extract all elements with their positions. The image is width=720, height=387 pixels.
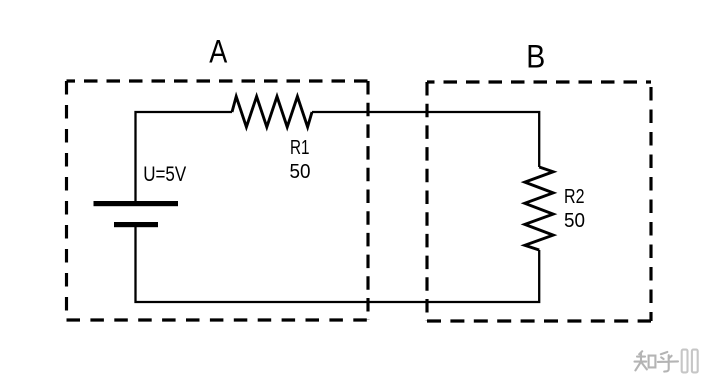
battery U1 top plate (long) <box>94 201 179 206</box>
wire top horizontal right of R1 down to R2 <box>312 112 539 167</box>
svg-text:A: A <box>209 34 228 70</box>
node B (dashed box B) <box>427 82 651 321</box>
watermark char 乎 <box>658 352 678 372</box>
svg-text:50: 50 <box>290 160 311 183</box>
watermark 知乎 logo <box>635 350 698 373</box>
watermark logo bar 2 <box>692 350 698 373</box>
watermark logo bar 1 <box>682 350 688 373</box>
battery U1 bottom plate (short) <box>114 222 158 227</box>
resistor R1 <box>232 97 312 128</box>
wire top-left vertical + top horizontal left of R1 <box>136 112 233 202</box>
svg-text:R2: R2 <box>564 185 585 208</box>
svg-text:B: B <box>526 39 545 75</box>
svg-text:U=5V: U=5V <box>143 163 186 186</box>
svg-text:50: 50 <box>564 209 585 232</box>
watermark char 知 <box>635 351 647 370</box>
wire right vertical below R2 + bottom horizontal <box>136 227 540 302</box>
resistor R2 <box>525 167 553 250</box>
node A (dashed box A) <box>67 81 369 320</box>
svg-text:R1: R1 <box>290 136 310 159</box>
